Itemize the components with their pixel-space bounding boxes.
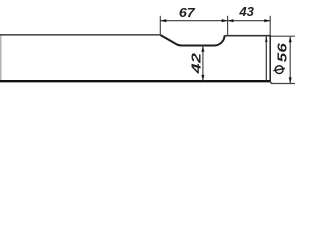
- arrow 42 bottom: [201, 75, 204, 81]
- dimension line 42 (vertical): [202, 46, 204, 81]
- extension line d56 bottom: [271, 83, 295, 85]
- extension line d56 top: [271, 35, 295, 37]
- dimension line 43: [228, 20, 271, 22]
- shaft top edge (right of groove): [225, 35, 271, 37]
- svg-text:43: 43: [238, 4, 254, 19]
- end chamfer edge line: [265, 36, 267, 80]
- svg-text:42: 42: [190, 53, 204, 75]
- svg-text:67: 67: [179, 6, 196, 20]
- extension line shared 67/43: [227, 16, 229, 35]
- join curve end face to bottom ext: [270, 80, 273, 83]
- small flare at chamfer line top: [265, 36, 267, 42]
- dimension line d56 (vertical): [289, 36, 291, 83]
- shaft bottom edge: [0, 80, 271, 82]
- arrow d56 bottom: [289, 77, 292, 83]
- arrow 67 right: [222, 19, 228, 22]
- arrow d56 top: [289, 37, 292, 43]
- svg-text:56: 56: [275, 43, 290, 63]
- shaft top edge (left of groove): [0, 34, 161, 36]
- label d56 (rotated): [273, 43, 289, 74]
- arrow 67 left: [160, 19, 166, 22]
- arrow 42 top: [201, 46, 204, 52]
- arrow 43 left: [228, 19, 234, 22]
- extension line 67 left: [159, 16, 161, 34]
- groove profile (left chamfer, flat bottom, right fillet): [160, 35, 224, 45]
- right end face: [269, 35, 271, 82]
- shaft left end face (faint): [0, 34, 2, 82]
- extension line 43 right (above part): [269, 16, 271, 35]
- dimension line 67: [160, 20, 227, 22]
- arrow 43 right: [264, 19, 270, 22]
